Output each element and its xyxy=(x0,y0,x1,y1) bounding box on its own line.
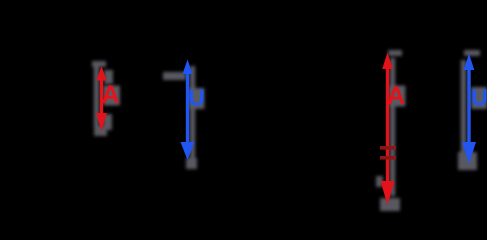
tick marks on R-A arrow xyxy=(380,146,396,160)
arrow R-U halo xyxy=(458,50,480,170)
svg-text:U: U xyxy=(188,85,205,111)
letter box L-U xyxy=(190,88,205,109)
arrow L-A (red, double-headed) xyxy=(96,66,107,132)
svg-text:A: A xyxy=(387,82,405,110)
svg-text:A: A xyxy=(101,81,119,109)
arrow L-A halo xyxy=(92,61,113,136)
letter box R-U xyxy=(471,87,487,109)
arrow L-U halo xyxy=(163,66,197,169)
svg-text:U: U xyxy=(471,85,487,111)
letter box R-A xyxy=(390,86,406,107)
arrow R-U (blue, double-headed) xyxy=(462,54,476,165)
arrow R-A (red, long, double-headed) xyxy=(381,53,395,206)
letter box L-A xyxy=(103,86,120,106)
arrow R-A halo xyxy=(376,50,402,211)
arrow L-U (blue, double-headed) xyxy=(181,60,195,161)
